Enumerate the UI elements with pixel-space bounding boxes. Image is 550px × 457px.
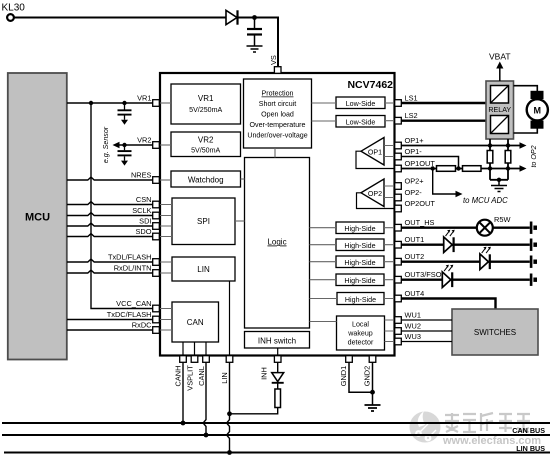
svg-text:VR1: VR1 <box>198 94 214 103</box>
svg-text:Local: Local <box>352 321 369 329</box>
svg-text:SCLK: SCLK <box>132 206 151 215</box>
svg-text:SPI: SPI <box>197 217 210 226</box>
switches block <box>452 309 538 355</box>
LIN block box <box>172 257 235 281</box>
wire MCU to SDO <box>67 234 153 237</box>
wire relay right chain <box>507 139 509 151</box>
stubs SPI to pins <box>160 205 172 237</box>
arrow to MCU ADC <box>456 191 463 198</box>
wire LS2 to relay <box>401 119 486 121</box>
high-side driver box 1 <box>336 222 384 234</box>
junction GND <box>370 390 375 395</box>
right pin labels <box>405 94 442 342</box>
wire OP1OUT row <box>401 168 520 170</box>
arrow to OP2 upper <box>520 142 527 149</box>
svg-text:INH: INH <box>260 367 269 380</box>
wire diode to resistor <box>277 383 279 389</box>
capacitor at VR2 <box>124 145 126 150</box>
regulator VR2 box <box>171 132 241 157</box>
svg-text:CANH: CANH <box>174 366 183 387</box>
left pin labels <box>107 94 152 330</box>
svg-text:RELAY: RELAY <box>488 106 511 114</box>
wire OP1- to divider <box>401 157 458 169</box>
svg-text:CAN: CAN <box>187 318 204 327</box>
svg-text:to OP2: to OP2 <box>530 145 538 167</box>
svg-text:RxDL/INTN: RxDL/INTN <box>114 264 152 273</box>
svg-text:OP2-: OP2- <box>405 188 423 197</box>
stubs logic to high-side boxes <box>310 228 338 299</box>
low-side driver box 2 <box>336 116 385 128</box>
svg-text:VBAT: VBAT <box>489 52 511 62</box>
arrow left e.g. sensor <box>113 142 120 148</box>
junction LIN bus <box>227 450 232 455</box>
rail VR1 to VCC_CAN <box>91 103 153 309</box>
arrow to OP2 lower <box>520 165 527 172</box>
supply terminal OUT3 <box>530 274 533 286</box>
junction OP1OUT left chain <box>488 166 492 170</box>
LIN bus line <box>4 452 550 454</box>
KL30 terminal <box>7 14 14 21</box>
svg-text:OP2OUT: OP2OUT <box>405 199 436 208</box>
high-side driver box 2 <box>336 239 384 251</box>
MCU block <box>8 73 67 360</box>
local wakeup detector box <box>337 316 385 350</box>
LED D3 <box>480 254 489 270</box>
ground GND2 <box>365 405 381 411</box>
svg-text:OP2+: OP2+ <box>405 177 424 186</box>
wire motor bottom to relay <box>514 129 538 134</box>
svg-text:R5W: R5W <box>494 215 510 224</box>
svg-text:Short circuit: Short circuit <box>259 100 296 108</box>
svg-text:OP2: OP2 <box>368 190 382 198</box>
svg-text:SDI: SDI <box>139 217 151 226</box>
svg-text:Low-Side: Low-Side <box>346 119 376 127</box>
high-side driver box 3 <box>336 256 384 268</box>
svg-text:VCC_CAN: VCC_CAN <box>116 299 151 308</box>
watermark logo <box>410 411 441 443</box>
junction VR1/rail <box>89 101 93 105</box>
regulator VR1 box <box>171 84 241 124</box>
svg-text:LIN: LIN <box>197 265 210 274</box>
wire MCU to SCLK <box>67 213 153 216</box>
wire OP2 output wrap <box>357 193 395 209</box>
svg-text:MCU: MCU <box>25 212 50 224</box>
svg-text:VR2: VR2 <box>198 136 214 145</box>
svg-text:OUT4: OUT4 <box>405 289 425 298</box>
wires CAN block to bottom pins <box>183 342 206 356</box>
svg-text:LS1: LS1 <box>405 94 418 103</box>
wire MCU to RxDL/INTN <box>67 270 153 273</box>
high-side driver box 4 <box>336 274 384 286</box>
SPI box <box>172 198 235 245</box>
wire WU1 <box>401 319 452 321</box>
svg-text:VSPLIT: VSPLIT <box>185 365 194 391</box>
VBAT arrow <box>499 68 501 82</box>
svg-text:VS: VS <box>269 55 278 65</box>
svg-text:OP1: OP1 <box>368 149 382 157</box>
svg-text:SWITCHES: SWITCHES <box>474 328 516 337</box>
svg-text:CAN BUS: CAN BUS <box>512 426 545 435</box>
wire resistor to LIN node <box>230 408 278 414</box>
bulb R5W <box>477 220 493 236</box>
CAN bus line L <box>2 434 550 436</box>
svg-text:CSN: CSN <box>136 195 152 204</box>
wire INH switch to INH pin <box>277 348 279 356</box>
wire INH pin to diode <box>277 362 279 372</box>
junction OP1OUT right chain <box>506 166 510 170</box>
CAN block box <box>172 302 219 342</box>
stubs LIN block to pins <box>160 262 172 273</box>
capacitor at VR1 <box>124 103 126 110</box>
svg-text:NRES: NRES <box>131 171 152 180</box>
svg-text:OP1+: OP1+ <box>405 136 424 145</box>
svg-text:OUT1: OUT1 <box>405 235 425 244</box>
left pins column <box>153 100 160 334</box>
wire bulb to battery <box>493 226 530 228</box>
stubs high-side to OUT pins <box>384 228 395 299</box>
stub logic to local wakeup <box>310 321 337 323</box>
svg-text:to MCU ADC: to MCU ADC <box>463 196 508 205</box>
svg-text:GND2: GND2 <box>363 366 372 387</box>
wire OUT4 to switches <box>401 299 495 310</box>
wire MCU to TxDL/FLASH <box>67 259 153 262</box>
stub low-side 1 to LS1 pin <box>385 102 395 104</box>
logic box <box>245 158 310 329</box>
LED D4 <box>442 272 451 288</box>
wire VR2 to sensor arrow <box>118 144 153 146</box>
low-side driver box 1 <box>336 97 385 109</box>
wire LIN pin to LIN bus <box>227 362 230 452</box>
stubs local wakeup to WU pins <box>385 320 395 342</box>
svg-text:Watchdog: Watchdog <box>188 176 224 185</box>
svg-text:5V/50mA: 5V/50mA <box>191 147 220 155</box>
junction LIN/INH branch <box>227 411 232 416</box>
arrow down VR1 load <box>121 120 128 125</box>
resistor R2 <box>463 166 482 172</box>
supply terminal OUT1 <box>530 239 533 251</box>
stub VR2 to pin <box>160 144 171 146</box>
wire MCU to VR1 pin <box>67 102 153 104</box>
svg-text:NCV7462: NCV7462 <box>347 79 393 91</box>
ground at C1 <box>247 46 263 52</box>
diode D1 <box>226 10 237 24</box>
wire OUT3 row <box>401 279 530 281</box>
wire MCU to NRES pin <box>67 177 153 180</box>
ground sense <box>498 180 500 185</box>
wire MCU to TxDC/FLASH <box>67 319 153 321</box>
IC outline NCV7462 <box>160 73 395 356</box>
stubs CAN block to pins <box>160 309 172 331</box>
svg-text:LS2: LS2 <box>405 111 418 120</box>
svg-text:Protection: Protection <box>262 90 294 98</box>
diode INH <box>272 373 284 382</box>
svg-text:CANL: CANL <box>197 366 206 386</box>
wire KL30 to diode <box>14 17 226 19</box>
svg-text:M: M <box>534 105 542 115</box>
stub SPI to logic <box>235 220 245 222</box>
wire MCU to CSN <box>67 202 153 205</box>
svg-text:Under/over-voltage: Under/over-voltage <box>247 132 307 140</box>
resistor sense right <box>505 151 511 164</box>
svg-text:WU2: WU2 <box>405 322 421 331</box>
svg-text:LIN BUS: LIN BUS <box>516 444 545 453</box>
high-side driver box 5 <box>337 293 384 305</box>
svg-text:TxDC/FLASH: TxDC/FLASH <box>107 310 152 319</box>
wire OUT2 row <box>401 261 530 263</box>
svg-text:detector: detector <box>348 339 374 347</box>
resistor sense left <box>487 151 493 164</box>
wire CANL to CAN bus low <box>203 362 206 435</box>
svg-text:INH switch: INH switch <box>258 337 296 346</box>
svg-text:VR1: VR1 <box>137 94 151 103</box>
stubs OP2 inputs <box>384 186 395 198</box>
relay block <box>486 81 514 139</box>
wire WU3 <box>401 341 452 343</box>
svg-text:OP1-: OP1- <box>405 147 423 156</box>
capacitor C1 <box>254 18 256 29</box>
wire OP1+ sense line <box>401 145 520 147</box>
svg-text:Open load: Open load <box>261 111 294 119</box>
stub VR1 to pin <box>160 102 171 104</box>
CAN bus line H <box>2 422 550 424</box>
op-amp OP2 <box>361 179 384 207</box>
svg-text:OUT3/FSO: OUT3/FSO <box>405 270 442 279</box>
wire ADC branch <box>433 169 456 195</box>
wire CANH to CAN bus high <box>182 362 184 423</box>
right pins column <box>395 100 402 345</box>
svg-text:High-Side: High-Side <box>344 259 375 267</box>
junction ADC tap <box>431 166 435 170</box>
svg-text:High-Side: High-Side <box>344 225 375 233</box>
stub watchdog to pin <box>160 179 171 181</box>
wire OP1 output wrap <box>356 151 395 168</box>
svg-text:KL30: KL30 <box>2 3 26 14</box>
svg-text:SDO: SDO <box>135 227 151 236</box>
wire MCU to SDI <box>67 223 153 226</box>
svg-text:High-Side: High-Side <box>344 277 375 285</box>
resistor INH pull <box>275 389 281 408</box>
wire chains join <box>490 179 508 181</box>
protection box <box>244 79 312 148</box>
junction node VS cap <box>252 15 257 20</box>
wire GND2 <box>372 362 374 404</box>
svg-text:5V/250mA: 5V/250mA <box>189 106 222 114</box>
stub protection to low-side 1 <box>312 102 337 104</box>
svg-text:WU3: WU3 <box>405 332 421 341</box>
svg-text:e.g. Sensor: e.g. Sensor <box>102 126 110 163</box>
watermark chinese text <box>445 413 530 432</box>
resistor R1 <box>437 166 456 172</box>
watchdog box <box>171 171 241 187</box>
svg-text:WU1: WU1 <box>405 311 421 320</box>
svg-text:TxDL/FLASH: TxDL/FLASH <box>108 253 152 262</box>
wire LS1 to relay <box>401 102 486 104</box>
op-amp OP1 <box>361 138 384 166</box>
wire relay to motor top <box>514 86 538 91</box>
wire WU2 <box>401 330 452 332</box>
LED D2 <box>444 237 453 253</box>
svg-text:High-Side: High-Side <box>344 242 375 250</box>
wire relay left chain <box>489 139 491 151</box>
wire OUT_HS to bulb <box>401 226 476 228</box>
INH switch box <box>245 332 310 349</box>
stub protection to logic <box>274 148 276 158</box>
svg-text:LIN: LIN <box>220 372 229 384</box>
svg-text:Low-Side: Low-Side <box>346 100 376 108</box>
junction VR2/cap <box>122 143 126 147</box>
svg-text:GND1: GND1 <box>339 366 348 387</box>
wire LIN block to LIN pin <box>229 281 231 356</box>
svg-text:wakeup: wakeup <box>347 330 373 338</box>
svg-text:RxDC: RxDC <box>132 321 152 330</box>
junction OP1+ right chain <box>506 143 510 147</box>
wire OUT1 row <box>401 243 530 245</box>
svg-text:High-Side: High-Side <box>345 296 376 304</box>
relay coil 2 <box>491 116 509 134</box>
relay coil 1 <box>491 86 509 104</box>
wire MCU to RxDC <box>67 329 153 331</box>
svg-text:OUT_HS: OUT_HS <box>405 218 435 227</box>
arrow down VR2 load <box>121 161 128 166</box>
svg-text:Logic: Logic <box>267 238 286 247</box>
svg-text:VR2: VR2 <box>137 136 151 145</box>
stub low-side 2 to LS2 pin <box>385 120 395 122</box>
junction OP1+ left chain <box>488 143 492 147</box>
supply terminal OUT2 <box>530 256 533 268</box>
junction VR1/cap <box>122 101 126 105</box>
wire GND1 <box>349 362 373 392</box>
svg-text:Over-temperature: Over-temperature <box>250 121 306 129</box>
supply terminal OUT_HS <box>530 222 533 234</box>
svg-text:OP1OUT: OP1OUT <box>405 159 436 168</box>
stub watchdog to logic <box>241 178 245 180</box>
wire diode to VS corner <box>239 18 279 67</box>
VS pin <box>274 67 281 74</box>
stub protection to low-side 2 <box>312 120 337 122</box>
svg-text:OUT2: OUT2 <box>405 252 425 261</box>
stubs OP1 inputs <box>384 146 395 157</box>
bottom pins row <box>180 356 376 363</box>
junction R1/R2 <box>456 166 460 170</box>
motor M <box>531 91 544 99</box>
